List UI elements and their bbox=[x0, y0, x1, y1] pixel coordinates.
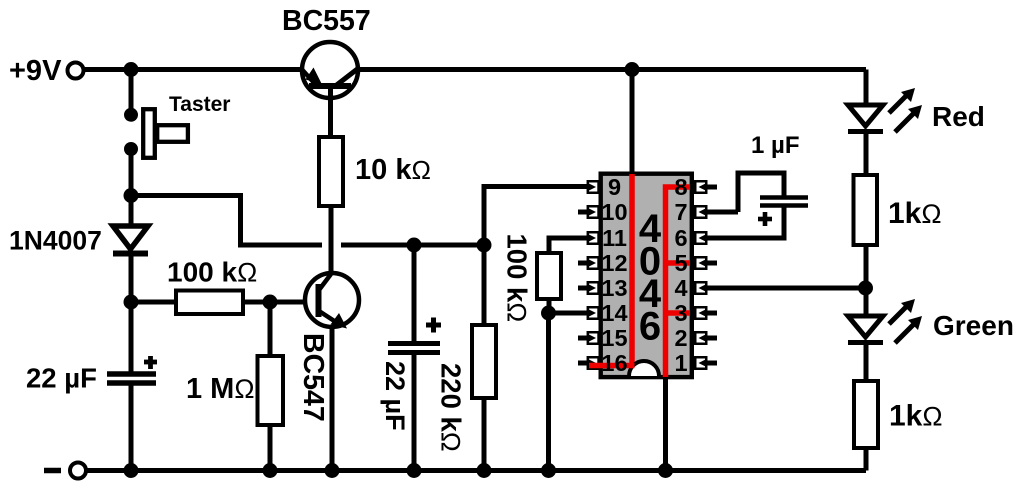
pin 16 bbox=[578, 357, 599, 369]
labels pin numbers right bbox=[674, 174, 687, 376]
pin 1 bbox=[695, 357, 717, 369]
wire rail elbow to red LED bbox=[864, 70, 869, 106]
pin 11 bbox=[587, 232, 599, 244]
svg-text:6: 6 bbox=[674, 225, 687, 251]
node gnd 7 bbox=[658, 463, 673, 478]
svg-text:13: 13 bbox=[601, 275, 627, 301]
svg-text:1kΩ: 1kΩ bbox=[889, 400, 943, 433]
node G junction bbox=[541, 306, 556, 321]
label minus bbox=[44, 468, 61, 474]
pin 13 bbox=[578, 282, 599, 294]
wire node D down to R3 bbox=[268, 302, 273, 356]
svg-text:1: 1 bbox=[674, 350, 687, 376]
wire R3 to ground rail bbox=[268, 425, 273, 470]
net red stub pin5 bbox=[666, 260, 691, 266]
svg-text:1 MΩ: 1 MΩ bbox=[186, 373, 255, 405]
resistor R4 220k bbox=[472, 245, 496, 470]
wire R2 to base bbox=[243, 300, 318, 305]
svg-text:100 kΩ: 100 kΩ bbox=[167, 257, 257, 288]
svg-text:5: 5 bbox=[674, 250, 687, 276]
label 4046 digits bbox=[639, 207, 662, 349]
wire switch to node B bbox=[129, 149, 134, 196]
capacitor C2 22uF bbox=[388, 245, 441, 470]
pin 10 bbox=[578, 206, 599, 218]
pin 5 bbox=[695, 257, 717, 269]
switch Taster bbox=[143, 109, 188, 158]
wire IC ground lead bbox=[663, 377, 668, 470]
node B junction bbox=[124, 188, 139, 203]
svg-text:10 kΩ: 10 kΩ bbox=[355, 154, 431, 186]
labels pin numbers left bbox=[601, 174, 627, 376]
node gnd 6 bbox=[541, 463, 556, 478]
pin 12 bbox=[578, 257, 599, 269]
transistor Q2 BC547 bbox=[305, 273, 359, 470]
pin 15 bbox=[578, 332, 599, 344]
svg-text:Taster: Taster bbox=[169, 93, 230, 116]
net red V+ line bbox=[629, 174, 635, 368]
svg-text:1 µF: 1 µF bbox=[751, 132, 800, 159]
resistor R7 1k bbox=[854, 381, 878, 448]
pin 3 bbox=[695, 307, 717, 319]
svg-text:1kΩ: 1kΩ bbox=[888, 197, 942, 230]
resistor R6 1k bbox=[854, 175, 878, 245]
svg-text:8: 8 bbox=[674, 174, 687, 200]
pin 14 bbox=[587, 307, 599, 319]
node gnd 5 bbox=[477, 463, 492, 478]
wire pin 4 to LED junction bbox=[706, 286, 866, 291]
wire LED to R6 bbox=[864, 131, 869, 175]
resistor R3 1M bbox=[258, 356, 284, 425]
pin 6 bbox=[695, 232, 707, 244]
IC U1 4046 body bbox=[601, 174, 692, 377]
IC notch bbox=[629, 361, 659, 376]
resistor R2 100k bbox=[176, 291, 243, 315]
wire node B to elbow bbox=[131, 196, 322, 246]
pin 4 bbox=[695, 282, 707, 294]
svg-text:6: 6 bbox=[639, 305, 661, 349]
LED D3 green bbox=[848, 299, 922, 343]
resistor R5 100k bbox=[537, 238, 591, 313]
node C junction bbox=[124, 295, 139, 310]
svg-text:Green: Green bbox=[933, 310, 1014, 341]
net red ground bus bbox=[666, 187, 691, 377]
terminal +9V bbox=[68, 63, 84, 79]
wire node C to R2 bbox=[131, 300, 176, 305]
node H rail to IC bbox=[625, 62, 640, 77]
svg-text:+9V: +9V bbox=[9, 55, 62, 87]
wire R1 to Q2 collector bbox=[329, 206, 334, 277]
svg-text:220 kΩ: 220 kΩ bbox=[436, 363, 467, 452]
resistor R1 10k bbox=[319, 137, 343, 206]
svg-text:100 kΩ: 100 kΩ bbox=[502, 234, 533, 323]
svg-text:22 µF: 22 µF bbox=[380, 361, 410, 431]
LED D2 red bbox=[848, 88, 922, 132]
node rail junction A bbox=[124, 62, 139, 77]
svg-text:BC547: BC547 bbox=[297, 333, 329, 422]
node E junction bbox=[407, 238, 422, 253]
wire R6 to node I bbox=[864, 245, 869, 288]
wire R7 to ground rail bbox=[864, 448, 869, 471]
pin 2 bbox=[695, 332, 717, 344]
node gnd 4 bbox=[407, 463, 422, 478]
node switch contact bottom bbox=[124, 142, 138, 156]
wire node I to green LED bbox=[864, 288, 869, 316]
net red stub pin3 bbox=[666, 310, 691, 316]
pin 9 bbox=[587, 181, 599, 193]
svg-text:9: 9 bbox=[608, 174, 621, 200]
svg-text:Red: Red bbox=[932, 101, 985, 132]
svg-text:15: 15 bbox=[601, 325, 627, 351]
svg-text:4: 4 bbox=[674, 275, 687, 301]
wire node G to ground bbox=[546, 313, 551, 470]
node D junction bbox=[263, 295, 278, 310]
wire green LED to R7 bbox=[864, 342, 869, 381]
wire IC supply feed bbox=[630, 70, 635, 175]
pin 7 bbox=[695, 206, 707, 218]
diode D1 1N4007 bbox=[113, 196, 148, 303]
node F junction bbox=[477, 238, 492, 253]
svg-text:2: 2 bbox=[674, 325, 687, 351]
svg-text:12: 12 bbox=[601, 250, 627, 276]
node I junction bbox=[858, 281, 873, 296]
pin 8 bbox=[695, 181, 717, 193]
svg-text:1N4007: 1N4007 bbox=[9, 226, 102, 256]
svg-text:7: 7 bbox=[674, 199, 687, 225]
wire node F to pin 9 bbox=[484, 187, 591, 246]
wire crossing right segment bbox=[341, 243, 484, 248]
wire node G to pin 14 bbox=[549, 311, 592, 316]
wire ground rail bbox=[86, 468, 866, 473]
terminal minus bbox=[70, 463, 86, 479]
transistor Q1 BC557 bbox=[302, 42, 358, 137]
node switch contact top bbox=[124, 108, 138, 122]
svg-text:11: 11 bbox=[602, 225, 627, 251]
node gnd 1 bbox=[124, 463, 139, 478]
svg-text:14: 14 bbox=[601, 300, 627, 326]
svg-text:3: 3 bbox=[674, 300, 687, 326]
node gnd 2 bbox=[263, 463, 278, 478]
wire taster top bbox=[129, 70, 134, 117]
capacitor C1 22uF bbox=[107, 302, 157, 470]
wire top +9V rail bbox=[84, 67, 866, 72]
svg-text:BC557: BC557 bbox=[282, 5, 371, 37]
net red pin16 strap bbox=[589, 363, 635, 369]
node gnd 3 bbox=[325, 463, 340, 478]
svg-text:22 µF: 22 µF bbox=[26, 363, 97, 394]
svg-text:10: 10 bbox=[601, 199, 627, 225]
capacitor C3 1uF bbox=[706, 173, 808, 238]
svg-text:16: 16 bbox=[601, 350, 627, 376]
